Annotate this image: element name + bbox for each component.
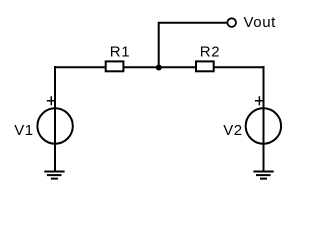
svg-text:R2: R2 — [200, 44, 220, 61]
wire R1 to node — [123, 66, 196, 68]
wire right vertical (corner down through V2 to ground) — [263, 66, 265, 172]
svg-text:V2: V2 — [223, 122, 243, 139]
Vout terminal circle — [227, 18, 236, 27]
V2 plus sign — [255, 96, 264, 105]
resistor R2 — [196, 61, 214, 71]
wire main horizontal left (V1 top to R1) — [54, 66, 106, 68]
wire R2 to V2 top corner — [214, 66, 265, 68]
V1 plus sign — [47, 96, 56, 105]
node junction dot — [156, 65, 162, 71]
wire node up to Vout — [158, 23, 227, 68]
wire left vertical (corner down through V1 to ground) — [54, 66, 56, 172]
ground right — [253, 172, 273, 179]
svg-text:Vout: Vout — [244, 14, 277, 31]
svg-text:V1: V1 — [14, 122, 34, 139]
ground left — [44, 172, 64, 179]
voltage source V1 — [37, 108, 72, 143]
voltage source V2 — [246, 108, 281, 143]
resistor R1 — [106, 61, 124, 71]
svg-text:R1: R1 — [110, 44, 130, 61]
